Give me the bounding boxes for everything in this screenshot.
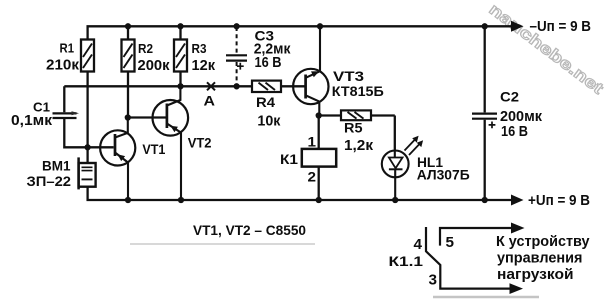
svg-text:–Uп = 9 В: –Uп = 9 В — [530, 18, 592, 35]
svg-text:VT1, VT2 – C8550: VT1, VT2 – C8550 — [193, 222, 306, 238]
svg-text:+Uп = 9 В: +Uп = 9 В — [528, 192, 590, 209]
svg-text:5: 5 — [446, 234, 455, 251]
svg-text:0,1мк: 0,1мк — [11, 112, 52, 129]
svg-text:R3: R3 — [192, 41, 207, 56]
svg-text:К устройству: К устройству — [496, 233, 590, 250]
svg-text:К1: К1 — [280, 151, 298, 167]
svg-text:1: 1 — [308, 134, 317, 150]
svg-text:АЛ307Б: АЛ307Б — [417, 167, 470, 183]
svg-text:16 В: 16 В — [501, 123, 528, 140]
svg-text:10к: 10к — [257, 112, 280, 129]
svg-text:нагрузкой: нагрузкой — [497, 266, 574, 283]
svg-text:ЗП–22: ЗП–22 — [27, 174, 72, 189]
svg-text:VT3: VT3 — [333, 68, 364, 84]
svg-text:2: 2 — [308, 168, 317, 184]
svg-text:VT2: VT2 — [188, 134, 212, 150]
svg-text:210к: 210к — [46, 56, 79, 73]
svg-text:К1.1: К1.1 — [389, 253, 424, 269]
svg-text:A: A — [204, 93, 216, 109]
svg-text:R1: R1 — [60, 41, 75, 56]
svg-text:C2: C2 — [500, 89, 519, 105]
svg-text:16 В: 16 В — [255, 54, 282, 71]
svg-text:4: 4 — [414, 236, 423, 253]
svg-text:управления: управления — [497, 250, 583, 267]
svg-text:R4: R4 — [256, 94, 275, 110]
svg-text:VT1: VT1 — [142, 141, 165, 157]
svg-text:ВМ1: ВМ1 — [42, 159, 71, 174]
svg-text:12к: 12к — [192, 57, 216, 74]
svg-text:1,2к: 1,2к — [344, 137, 374, 154]
svg-text:R2: R2 — [138, 41, 153, 56]
svg-text:R5: R5 — [344, 121, 363, 136]
svg-text:200к: 200к — [138, 57, 170, 74]
svg-text:КТ815Б: КТ815Б — [332, 83, 384, 99]
svg-text:3: 3 — [429, 272, 438, 289]
